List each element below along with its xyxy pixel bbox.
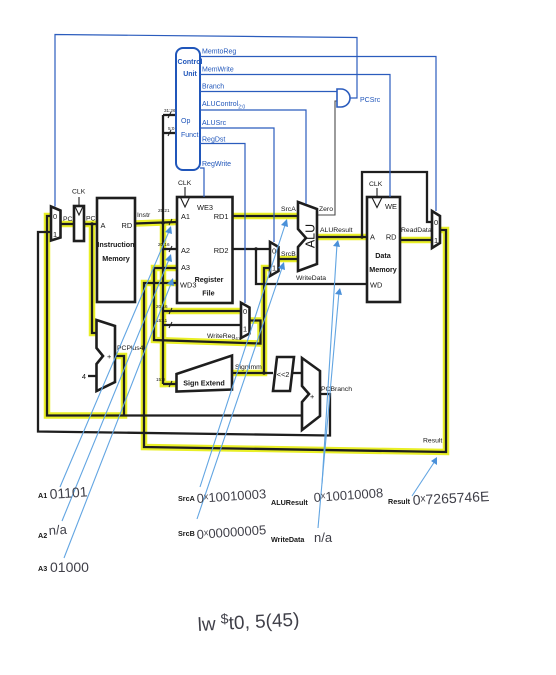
wire RegWrite <box>200 168 204 197</box>
svg-text:RD2: RD2 <box>214 246 229 255</box>
mux WriteReg (RegDst mux) <box>241 303 250 338</box>
wire Result mux output loop around bottom to WD3 (highlight) <box>144 230 446 452</box>
svg-text:File: File <box>202 289 214 298</box>
mux Result (MemtoReg mux) <box>432 211 440 248</box>
svg-text:5:0: 5:0 <box>168 126 175 131</box>
svg-text:A2: A2 <box>181 246 190 255</box>
junction PC branch <box>90 222 93 225</box>
svg-text:A: A <box>101 221 106 230</box>
svg-text:A2: A2 <box>38 531 47 540</box>
svg-text:0: 0 <box>434 218 438 227</box>
wire SignImm to SrcB mux input 1 (highlight) <box>233 268 270 373</box>
svg-text:Data: Data <box>375 251 392 260</box>
wire ReadData to Result mux input 1 (highlight) <box>400 237 432 244</box>
wire RD2 to SrcB mux input 0 <box>232 248 270 250</box>
wire SrcB mux output to ALU (highlight) <box>278 256 298 263</box>
svg-text:A1: A1 <box>38 491 47 500</box>
svg-text:RD: RD <box>122 221 133 230</box>
svg-text:1: 1 <box>434 236 438 245</box>
annotation arrow A1 <box>60 229 170 487</box>
svg-text:PC': PC' <box>63 216 74 223</box>
wire PC branch to PCPlus4 adder top input <box>92 224 96 333</box>
annotation arrow ALUResult <box>322 244 337 484</box>
wire PCPlus4 output feedback to PC' mux input 0 (highlight) <box>47 216 124 416</box>
wire WriteReg mux output loop to A3 (highlight) <box>154 268 261 344</box>
svg-text:25:21: 25:21 <box>158 208 170 213</box>
wire 15:0 to Sign Extend (highlight) <box>163 381 176 388</box>
wire Instr bus vertical <box>162 115 164 384</box>
svg-text:1: 1 <box>243 325 247 334</box>
wire shift left 2 output to PCBranch adder top input <box>292 372 302 374</box>
clock tick PC <box>78 197 80 206</box>
svg-text:Result: Result <box>423 438 442 445</box>
junction ALUResult bypass <box>360 235 363 238</box>
bit slice tick 31:26 <box>168 112 171 118</box>
svg-text:01000: 01000 <box>50 559 89 575</box>
annotation arrow A3 <box>64 281 172 558</box>
annotation arrow WriteData <box>318 292 339 528</box>
bit slice tick 15:0 <box>169 381 172 387</box>
clock tick register file <box>184 187 186 197</box>
svg-text:CLK: CLK <box>72 189 86 196</box>
svg-text:Register: Register <box>195 275 224 284</box>
clock triangle data memory <box>372 198 382 208</box>
svg-text:Unit: Unit <box>183 71 197 78</box>
wire PCPlus4 feedback to PC' mux input 0 <box>47 216 124 416</box>
svg-text:Funct: Funct <box>181 132 199 139</box>
wire MemtoReg <box>200 57 436 212</box>
svg-text:Memory: Memory <box>369 265 397 274</box>
bit slice tick A1 25:21 <box>169 219 172 225</box>
bit slice tick 20:16 writereg <box>169 308 172 314</box>
svg-text:PCPlus4: PCPlus4 <box>117 345 144 352</box>
svg-text:SrcB: SrcB <box>281 251 296 258</box>
svg-text:SrcB: SrcB <box>178 529 195 538</box>
svg-text:n/a: n/a <box>48 522 68 538</box>
svg-text:RD: RD <box>386 233 397 242</box>
svg-text:Result: Result <box>388 497 411 506</box>
svg-text:WE3: WE3 <box>197 203 213 212</box>
annotation arrow Result <box>412 461 435 496</box>
wire PCSrc from AND gate over top to PC' mux select <box>55 35 357 207</box>
svg-text:<<2: <<2 <box>277 370 290 379</box>
svg-text:MemWrite: MemWrite <box>202 67 234 74</box>
svg-text:Control: Control <box>178 59 203 66</box>
svg-text:RD1: RD1 <box>214 212 229 221</box>
svg-text:WD: WD <box>370 281 382 290</box>
junction Instr bus <box>161 221 164 224</box>
svg-text:A1: A1 <box>181 212 190 221</box>
svg-text:ReadData: ReadData <box>401 227 432 234</box>
wire Branch <box>200 91 337 93</box>
svg-text:A3: A3 <box>38 564 47 573</box>
svg-text:CLK: CLK <box>178 180 192 187</box>
svg-text:ALUSrc: ALUSrc <box>202 120 227 127</box>
wire RD1 to ALU SrcA <box>232 215 298 217</box>
junction WriteData branch <box>254 247 257 250</box>
wire PCPlus4 to PCBranch adder bottom input <box>124 414 302 416</box>
svg-text:Op: Op <box>181 118 190 125</box>
wire constant 4 into PCPlus4 adder <box>88 375 97 377</box>
wire Zero from ALU to AND gate <box>317 101 337 215</box>
wire RD1 to SrcA (highlight) <box>232 213 298 220</box>
svg-text:+: + <box>107 352 111 361</box>
wire MemWrite <box>200 75 390 198</box>
wire ALUControl <box>200 110 306 204</box>
svg-text:01101: 01101 <box>49 483 88 502</box>
wire Instr from IMem RD to RF A1 <box>135 222 177 224</box>
wire PC branch down to PCPlus4 adder (highlight) <box>92 224 96 333</box>
wire A2 input 20:16 <box>163 248 177 250</box>
wire ALUSrc <box>200 128 274 242</box>
control unit box <box>176 48 200 170</box>
wire Instr RD to A1 (highlight) <box>135 222 177 224</box>
wire WriteReg mux output loop to A3 <box>154 268 261 344</box>
svg-text:SrcA: SrcA <box>281 206 296 213</box>
wire 15:0 to Sign Extend <box>163 383 176 385</box>
svg-text:Branch: Branch <box>202 84 224 91</box>
svg-text:0: 0 <box>243 307 247 316</box>
svg-text:A3: A3 <box>181 263 190 272</box>
wire ReadData to Result mux input 1 <box>400 239 432 241</box>
svg-text:PCSrc: PCSrc <box>360 97 381 104</box>
svg-text:CLK: CLK <box>369 181 383 188</box>
wire 20:16 to WriteReg mux input 0 <box>163 310 241 312</box>
wire PC' mux output to PC to IMem A (highlight) <box>61 221 97 228</box>
svg-text:A: A <box>370 233 375 242</box>
junction SignImm branch <box>262 371 265 374</box>
svg-text:ALUResult: ALUResult <box>271 498 308 507</box>
register file box <box>177 197 233 303</box>
svg-text:Sign Extend: Sign Extend <box>183 379 225 388</box>
data memory box <box>367 197 400 302</box>
wire RegDst <box>200 144 245 304</box>
wire ALUResult to Data Memory A (highlight) <box>317 234 367 241</box>
svg-text:31:26: 31:26 <box>164 108 176 113</box>
svg-text:WriteData: WriteData <box>271 535 305 544</box>
wire PCBranch output loop to PC' mux input 1 <box>38 232 330 436</box>
annotation arrow SrcA <box>200 222 286 487</box>
wire WriteData from RD2 to Data Memory WD <box>256 249 367 284</box>
sign extend box <box>177 356 233 392</box>
wire Result loop around bottom to WD3 <box>144 230 446 452</box>
svg-text:1: 1 <box>53 230 57 239</box>
register PC <box>74 206 84 241</box>
bit slice tick 15:11 <box>169 322 172 328</box>
wire SrcB mux output to ALU <box>278 258 298 260</box>
shift left 2 box <box>273 357 294 391</box>
mux PC' (PCSrc mux) <box>51 207 61 241</box>
svg-text:n/a: n/a <box>314 530 333 545</box>
clock tick data memory <box>376 188 378 197</box>
svg-text:RegWrite: RegWrite <box>202 161 231 168</box>
svg-text:ALU: ALU <box>304 224 318 248</box>
svg-text:WriteData: WriteData <box>296 275 326 282</box>
clock triangle register file <box>181 198 190 208</box>
adder PCBranch <box>302 358 320 430</box>
svg-text:PC: PC <box>86 216 96 223</box>
annotation arrow SrcB <box>197 265 283 519</box>
wire PC to IMem A <box>84 223 97 225</box>
wire PCPlus4 output down <box>115 356 124 416</box>
ALU <box>298 202 317 271</box>
wire 20:16 to WriteReg mux 0 (highlight) <box>163 308 241 315</box>
svg-text:0: 0 <box>53 212 57 221</box>
annotation arrow A2 <box>62 257 170 521</box>
wire PC' mux output to PC <box>61 223 74 225</box>
svg-text:PCBranch: PCBranch <box>321 386 352 393</box>
wire 15:11 to WriteReg mux input 1 <box>163 324 241 326</box>
bit slice tick A2 20:16 <box>169 246 172 252</box>
wire SignImm from Sign Extend to SrcB mux input 1 <box>233 268 270 373</box>
svg-text:Instr: Instr <box>137 212 151 219</box>
svg-text:WE: WE <box>385 202 397 211</box>
wire ALUResult bypass over Data Memory to Result mux input 0 <box>362 172 432 237</box>
svg-text:SrcA: SrcA <box>178 494 195 503</box>
svg-text:4: 4 <box>82 372 86 381</box>
bit slice tick 5:0 <box>168 130 171 136</box>
svg-text:Zero: Zero <box>319 206 333 213</box>
mux SrcB (ALUSrc mux) <box>270 242 279 276</box>
svg-text:Instruction: Instruction <box>97 240 134 249</box>
svg-text:15:0: 15:0 <box>156 377 165 382</box>
wire ALUResult to Data Memory A <box>317 236 367 238</box>
wire Op input 31:26 <box>163 114 176 116</box>
svg-text:RegDst: RegDst <box>202 137 225 144</box>
wire Instr bus vertical (highlight) <box>160 223 167 384</box>
svg-text:+: + <box>310 392 314 401</box>
wire Funct input 5:0 <box>163 132 176 134</box>
clock triangle PC <box>75 207 83 216</box>
svg-text:ALUResult: ALUResult <box>320 227 353 234</box>
adder PCPlus4 <box>97 320 116 391</box>
svg-text:MemtoReg: MemtoReg <box>202 49 236 56</box>
AND gate PCSrc <box>337 89 350 107</box>
instruction memory box <box>97 198 135 302</box>
svg-text:Memory: Memory <box>102 254 130 263</box>
wire SignImm branch into shift left 2 <box>264 372 273 374</box>
